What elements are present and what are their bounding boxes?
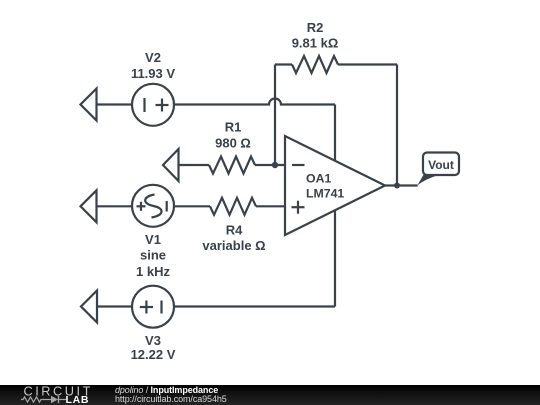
- wire G3 to V3: [97, 305, 132, 307]
- wire feedback left vertical (node to R2): [274, 65, 276, 166]
- resistor R2: [292, 56, 338, 73]
- footer text: [115, 386, 227, 405]
- op-amp OA1 LM741: [285, 136, 385, 235]
- wire V- supply up to op-amp bottom pin: [334, 211, 336, 307]
- label V3 12.22 V: [131, 333, 176, 362]
- wire R2 left lead: [275, 63, 292, 65]
- ground G3 (V3 left): [81, 291, 97, 323]
- svg-text:980 Ω: 980 Ω: [215, 136, 251, 151]
- label R1 980 Ω: [215, 120, 251, 151]
- ground G2 (V1 left): [81, 190, 97, 222]
- wire V+ supply down to op-amp top pin: [334, 105, 336, 161]
- wire R4 to non-inverting input: [256, 205, 285, 207]
- wire feedback right vertical down to output: [396, 65, 398, 186]
- svg-text:12.22 V: 12.22 V: [131, 347, 176, 362]
- wire op-amp output: [385, 184, 418, 186]
- svg-text:variable Ω: variable Ω: [202, 238, 265, 253]
- svg-text:sine: sine: [140, 248, 166, 263]
- label OA1 LM741: [306, 172, 344, 201]
- footer bar: [0, 385, 540, 405]
- label R2 9.81 kΩ: [292, 20, 339, 51]
- wire G1 to V2: [97, 103, 133, 105]
- ground G1 (V2 left): [81, 89, 97, 121]
- voltage source V3: [132, 286, 174, 328]
- svg-text:V3: V3: [145, 333, 161, 348]
- resistor R1: [209, 157, 255, 174]
- svg-text:Vout: Vout: [428, 158, 454, 172]
- wire G4 to R1: [179, 164, 210, 166]
- svg-text:V2: V2: [145, 50, 161, 65]
- svg-text:LAB: LAB: [66, 394, 90, 405]
- svg-text:9.81 kΩ: 9.81 kΩ: [292, 36, 339, 51]
- svg-text:R1: R1: [225, 120, 242, 135]
- wire R1 to inverting input: [255, 164, 285, 166]
- svg-text:R2: R2: [307, 20, 324, 35]
- net flag Vout: [417, 153, 459, 187]
- label V2 11.93 V: [131, 50, 175, 81]
- CircuitLab logo: [21, 385, 116, 405]
- label V1 sine 1 kHz: [136, 232, 170, 279]
- svg-text:V1: V1: [145, 232, 161, 247]
- svg-text:1 kHz: 1 kHz: [136, 264, 170, 279]
- svg-text:OA1: OA1: [306, 172, 331, 186]
- svg-text:R4: R4: [226, 223, 243, 238]
- wire G2 to V1: [97, 205, 133, 207]
- ground G4 (R1 left): [163, 149, 179, 181]
- voltage source V2: [132, 84, 174, 126]
- node: inverting input junction: [272, 162, 278, 168]
- voltage source V1 (sine): [132, 185, 174, 227]
- label R4 variable Ω: [202, 223, 265, 254]
- wire V1 to R4: [174, 205, 210, 207]
- svg-text:11.93 V: 11.93 V: [131, 66, 175, 81]
- wire V3 to V- supply corner: [174, 305, 335, 307]
- wire R2 right lead: [338, 63, 397, 65]
- resistor R4: [210, 198, 256, 215]
- node: output junction: [394, 183, 400, 189]
- wire V2 to V+ supply corner (hop over feedback wire): [174, 99, 335, 105]
- svg-text:LM741: LM741: [306, 187, 344, 201]
